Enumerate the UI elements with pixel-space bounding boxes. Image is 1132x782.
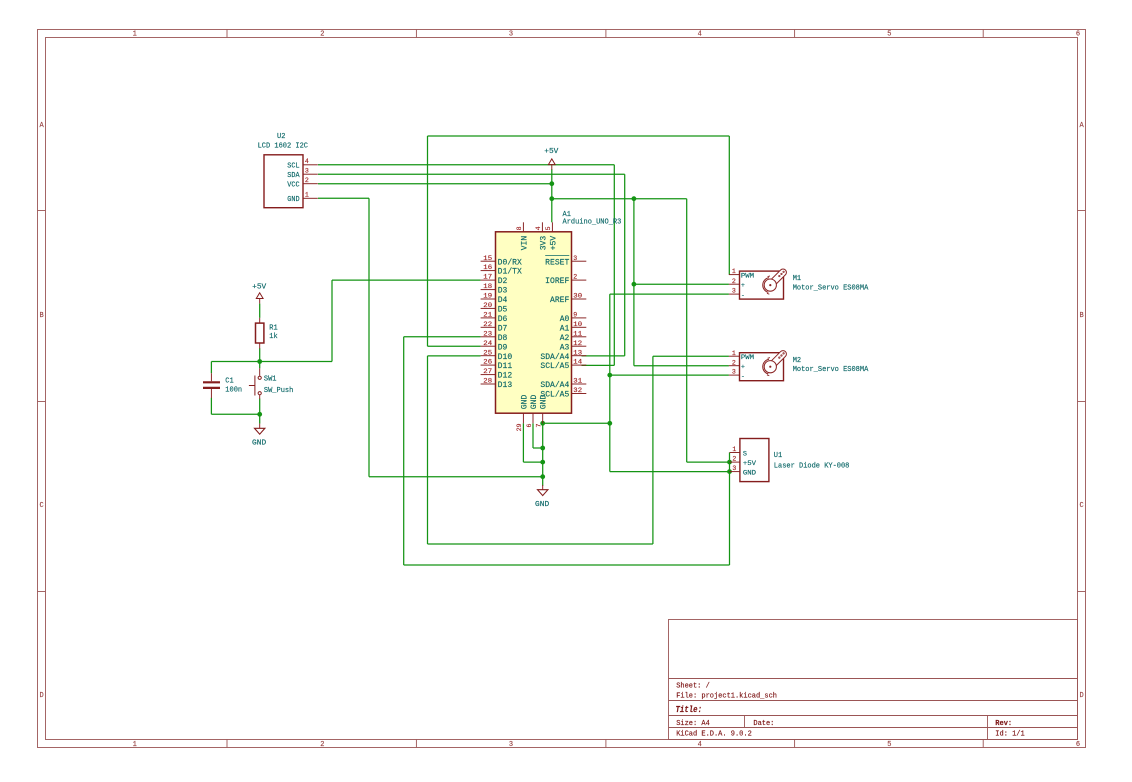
U1 pin 1 S bbox=[730, 446, 747, 459]
A1 pin 13 SDA/A4 bbox=[540, 349, 586, 362]
wire VCC from U2 to +5V rail bbox=[318, 183, 552, 185]
A1 pin 5 +5V (top) bbox=[545, 222, 558, 250]
svg-text:18: 18 bbox=[483, 283, 492, 290]
A1 pin 15 D0/RX bbox=[481, 255, 522, 268]
svg-text:6: 6 bbox=[526, 423, 533, 427]
A1 pin 31 SDA/A4 bbox=[540, 378, 586, 391]
M2 pin 2 + bbox=[729, 359, 745, 371]
U2 pin 3 SDA bbox=[287, 168, 317, 181]
svg-text:D13: D13 bbox=[498, 381, 513, 390]
frame row ticks bbox=[38, 211, 1086, 592]
frame column labels 1-6 top and bottom bbox=[133, 31, 1081, 750]
power symbol +5V above R1 bbox=[252, 283, 267, 318]
svg-text:File: project1.kicad_sch: File: project1.kicad_sch bbox=[676, 693, 777, 701]
M1 servo horn icon bbox=[763, 268, 788, 295]
A1 pin 6 GND (bottom) bbox=[526, 395, 539, 428]
svg-text:GND: GND bbox=[287, 196, 299, 204]
ground symbol left GND below SW1 bbox=[252, 424, 266, 448]
A1 pin 16 D1/TX bbox=[481, 264, 522, 277]
wire GND pin 7 to the right bbox=[543, 422, 610, 424]
svg-text:25: 25 bbox=[483, 349, 492, 356]
ground symbol GND below Arduino bbox=[535, 485, 549, 509]
A1 pin 30 AREF bbox=[550, 293, 586, 306]
M2 pin 1 PWM bbox=[729, 350, 754, 362]
svg-text:-: - bbox=[741, 373, 745, 381]
svg-text:100n: 100n bbox=[225, 387, 242, 395]
svg-text:26: 26 bbox=[483, 359, 492, 366]
svg-text:+5V: +5V bbox=[544, 148, 559, 156]
svg-text:Rev:: Rev: bbox=[995, 720, 1012, 728]
wire R1 bottom to SW1 top bbox=[259, 348, 261, 368]
A1 pin 2 IOREF bbox=[545, 274, 586, 287]
A1 pin 14 SCL/A5 bbox=[540, 359, 586, 372]
wire SCL vertical bbox=[613, 165, 615, 366]
svg-text:SCL: SCL bbox=[287, 163, 299, 171]
svg-text:D5: D5 bbox=[498, 306, 508, 315]
svg-text:1: 1 bbox=[732, 446, 736, 453]
U2 pin 2 VCC bbox=[287, 177, 317, 190]
svg-text:3: 3 bbox=[305, 168, 309, 175]
svg-text:B: B bbox=[1079, 312, 1083, 320]
U2 pin 1 GND bbox=[287, 192, 317, 205]
node GND rail bbox=[607, 421, 612, 426]
wire D10 net vertical down bbox=[427, 356, 429, 544]
svg-text:5: 5 bbox=[887, 741, 891, 749]
svg-text:5: 5 bbox=[887, 31, 891, 39]
svg-text:C: C bbox=[39, 502, 43, 510]
svg-text:32: 32 bbox=[573, 387, 582, 394]
svg-text:C1: C1 bbox=[225, 377, 233, 385]
node +5V rail tap bbox=[549, 196, 554, 201]
wire SW1 bottom to GND symbol bbox=[259, 399, 261, 424]
svg-text:Size: A4: Size: A4 bbox=[676, 720, 710, 728]
svg-text:2: 2 bbox=[305, 177, 309, 184]
node GND M2 pin3 bbox=[607, 373, 612, 378]
wire SDA vertical bbox=[624, 174, 626, 356]
svg-text:A1: A1 bbox=[560, 324, 570, 333]
svg-text:3: 3 bbox=[732, 288, 736, 295]
wire D10 net bottom horizontal bbox=[428, 543, 653, 545]
wire GND pin 6 down bbox=[532, 423, 534, 448]
A1 pin 20 D5 bbox=[481, 302, 508, 315]
svg-text:16: 16 bbox=[483, 264, 492, 271]
wire SCL into SCL/A5 pin 14 bbox=[582, 364, 615, 366]
svg-text:D11: D11 bbox=[498, 362, 513, 371]
svg-text:+: + bbox=[741, 282, 745, 290]
node U1 pin3 junction bbox=[727, 469, 732, 474]
svg-text:8: 8 bbox=[516, 226, 523, 230]
svg-text:4: 4 bbox=[305, 158, 309, 165]
svg-text:B: B bbox=[39, 312, 43, 320]
wire D2 net vertical bbox=[331, 280, 333, 361]
U2 pin 4 SCL bbox=[287, 158, 317, 171]
wire GND vertical M1 pin 3 down to U1 bbox=[609, 294, 611, 472]
svg-text:2: 2 bbox=[320, 741, 324, 749]
motor M2 Motor_Servo ES08MA body bbox=[740, 353, 784, 381]
svg-text:SW_Push: SW_Push bbox=[264, 387, 293, 395]
svg-text:D: D bbox=[1079, 692, 1083, 700]
svg-text:AREF: AREF bbox=[550, 296, 570, 305]
wire U2 GND join bbox=[369, 476, 543, 478]
node GND pin7 bbox=[540, 421, 545, 426]
svg-text:4: 4 bbox=[535, 226, 542, 230]
svg-text:9: 9 bbox=[573, 312, 577, 319]
A1 pin 12 A3 bbox=[560, 340, 587, 353]
A1 pin 8 VIN (top) bbox=[516, 222, 529, 250]
wire D9 net top horizontal bbox=[428, 135, 730, 137]
svg-text:-: - bbox=[741, 292, 745, 300]
svg-text:20: 20 bbox=[483, 302, 492, 309]
svg-text:+: + bbox=[741, 364, 745, 372]
svg-text:17: 17 bbox=[483, 274, 492, 281]
svg-text:RESET: RESET bbox=[545, 258, 569, 267]
svg-text:1k: 1k bbox=[269, 333, 277, 341]
A1 pin 3 RESET bbox=[545, 255, 586, 268]
svg-text:+5V: +5V bbox=[743, 460, 757, 468]
motor M1 Motor_Servo ES08MA body bbox=[740, 271, 784, 299]
svg-text:Sheet: /: Sheet: / bbox=[676, 682, 710, 690]
wire D8 net vertical down bbox=[403, 337, 405, 565]
svg-text:LCD 1602 I2C: LCD 1602 I2C bbox=[258, 143, 308, 151]
svg-text:21: 21 bbox=[483, 312, 492, 319]
wire SDA into SDA/A4 pin 13 bbox=[582, 355, 625, 357]
svg-text:3V3: 3V3 bbox=[539, 236, 548, 251]
svg-text:+5V: +5V bbox=[252, 283, 267, 291]
wire C1 bottom down bbox=[210, 398, 212, 415]
wire D10 to the left bbox=[428, 355, 481, 357]
svg-text:Date:: Date: bbox=[753, 720, 774, 728]
svg-text:30: 30 bbox=[573, 293, 582, 300]
wire GND pin 29 down bbox=[522, 423, 524, 462]
svg-text:GND: GND bbox=[252, 439, 266, 447]
svg-text:GND: GND bbox=[535, 501, 549, 509]
svg-text:M1: M1 bbox=[793, 275, 801, 283]
svg-text:GND: GND bbox=[520, 395, 529, 410]
svg-text:D1/TX: D1/TX bbox=[498, 268, 522, 277]
svg-text:6: 6 bbox=[1076, 741, 1080, 749]
svg-text:SDA: SDA bbox=[287, 172, 300, 180]
svg-text:SCL/A5: SCL/A5 bbox=[540, 362, 569, 371]
svg-text:D6: D6 bbox=[498, 315, 508, 324]
wire GND into M2 pin 3 bbox=[610, 374, 729, 376]
A1 pin 22 D7 bbox=[481, 321, 508, 334]
wire +5V vertical to U1 bbox=[686, 199, 688, 462]
title block outline bbox=[669, 620, 1078, 740]
node GND pin29 join bbox=[540, 460, 545, 465]
svg-text:GND: GND bbox=[530, 395, 539, 410]
svg-text:11: 11 bbox=[573, 330, 582, 337]
svg-text:Motor_Servo ES08MA: Motor_Servo ES08MA bbox=[793, 285, 869, 293]
A1 pin 32 SCL/A5 bbox=[540, 387, 586, 400]
svg-text:D4: D4 bbox=[498, 296, 508, 305]
svg-text:A3: A3 bbox=[560, 343, 570, 352]
wire down into M1 pin 1 PWM bbox=[728, 136, 730, 275]
A1 pin 24 D9 bbox=[481, 340, 508, 353]
svg-text:S: S bbox=[743, 451, 747, 459]
svg-text:1: 1 bbox=[305, 192, 309, 199]
svg-text:Title:: Title: bbox=[676, 704, 703, 715]
svg-text:C: C bbox=[1079, 502, 1083, 510]
svg-text:1: 1 bbox=[732, 268, 736, 275]
svg-text:13: 13 bbox=[573, 349, 582, 356]
svg-text:7: 7 bbox=[536, 423, 543, 427]
A1 pin 21 D6 bbox=[481, 312, 508, 325]
wire up to M2 pin 1 bbox=[652, 356, 654, 544]
wire GND into U1 pin 3 bbox=[610, 471, 730, 473]
svg-text:23: 23 bbox=[483, 330, 492, 337]
svg-text:D7: D7 bbox=[498, 324, 508, 333]
node GND U2 join bbox=[540, 474, 545, 479]
wire GND into M1 pin 3 bbox=[610, 293, 729, 295]
svg-text:U1: U1 bbox=[774, 452, 782, 460]
wire D8 to the left bbox=[404, 336, 481, 338]
svg-text:10: 10 bbox=[573, 321, 582, 328]
U1 Laser Diode KY-008 body bbox=[740, 439, 769, 482]
wire GND pin 29 join bbox=[523, 461, 542, 463]
frame column ticks bbox=[227, 30, 983, 748]
svg-text:+5V: +5V bbox=[549, 236, 558, 251]
svg-text:2: 2 bbox=[732, 456, 736, 463]
svg-text:SDA/A4: SDA/A4 bbox=[540, 353, 569, 362]
capacitor C1 bbox=[203, 373, 220, 398]
wire +5V branch vertical to M1 bbox=[633, 199, 635, 285]
svg-text:31: 31 bbox=[573, 378, 582, 385]
U1 pin 2 +5V bbox=[730, 456, 758, 469]
svg-text:VIN: VIN bbox=[520, 236, 529, 251]
A1 pin 27 D12 bbox=[481, 368, 513, 381]
svg-text:IOREF: IOREF bbox=[545, 277, 569, 286]
svg-text:3: 3 bbox=[509, 741, 513, 749]
svg-text:A2: A2 bbox=[560, 334, 570, 343]
svg-text:D3: D3 bbox=[498, 287, 508, 296]
svg-text:D10: D10 bbox=[498, 353, 513, 362]
svg-text:19: 19 bbox=[483, 293, 492, 300]
svg-text:D12: D12 bbox=[498, 372, 513, 381]
svg-text:PWM: PWM bbox=[741, 273, 754, 281]
M1 pin 2 + bbox=[729, 278, 745, 290]
svg-text:VCC: VCC bbox=[287, 182, 299, 190]
svg-text:2: 2 bbox=[732, 278, 736, 285]
svg-text:1: 1 bbox=[732, 350, 736, 357]
svg-text:3: 3 bbox=[732, 369, 736, 376]
M1 pin 1 PWM bbox=[729, 268, 754, 280]
svg-text:D: D bbox=[39, 692, 43, 700]
M1 pin 3 - bbox=[729, 288, 745, 300]
node +5V VCC tap bbox=[549, 181, 554, 186]
U2 LCD 1602 I2C component box bbox=[264, 155, 303, 208]
node U1 pin2 junction bbox=[727, 460, 732, 465]
wire D9 to the left bbox=[428, 345, 481, 347]
A1 pin 26 D11 bbox=[481, 359, 513, 372]
switch SW1 SW_Push bbox=[249, 368, 261, 399]
svg-text:3: 3 bbox=[732, 465, 736, 472]
wire U2 GND vertical bbox=[368, 198, 370, 476]
wire +5V into U1 pin 2 bbox=[687, 461, 730, 463]
svg-text:2: 2 bbox=[320, 31, 324, 39]
svg-text:14: 14 bbox=[573, 359, 582, 366]
svg-text:GND: GND bbox=[743, 470, 756, 478]
wire GND pin 6 join bbox=[533, 447, 543, 449]
svg-text:4: 4 bbox=[698, 741, 702, 749]
svg-text:27: 27 bbox=[483, 368, 492, 375]
svg-text:Id: 1/1: Id: 1/1 bbox=[995, 731, 1024, 739]
svg-text:D8: D8 bbox=[498, 334, 508, 343]
U1 pin 3 GND bbox=[730, 465, 757, 478]
svg-text:Arduino_UNO_R3: Arduino_UNO_R3 bbox=[563, 218, 622, 226]
svg-text:SDA/A4: SDA/A4 bbox=[540, 381, 569, 390]
svg-text:1: 1 bbox=[133, 741, 137, 749]
A1 pin 18 D3 bbox=[481, 283, 508, 296]
wire D9 net vertical up bbox=[427, 136, 429, 346]
svg-text:1: 1 bbox=[133, 31, 137, 39]
wire down to C1 bbox=[210, 362, 212, 374]
svg-text:GND: GND bbox=[540, 395, 549, 410]
power symbol +5V above Arduino bbox=[544, 148, 559, 170]
node GND left bbox=[257, 412, 262, 417]
svg-text:15: 15 bbox=[483, 255, 492, 262]
node R1/SW1/C1/D2 bbox=[257, 359, 262, 364]
svg-text:D2: D2 bbox=[498, 277, 508, 286]
svg-text:D0/RX: D0/RX bbox=[498, 258, 522, 267]
resistor R1 bbox=[256, 318, 264, 349]
wire U2 GND to the right bbox=[318, 197, 369, 199]
svg-text:A0: A0 bbox=[560, 315, 570, 324]
svg-text:3: 3 bbox=[509, 31, 513, 39]
svg-text:5: 5 bbox=[545, 226, 552, 230]
wire SDA horizontal from U2 bbox=[318, 173, 625, 175]
svg-text:Laser Diode KY-008: Laser Diode KY-008 bbox=[774, 463, 850, 471]
svg-text:29: 29 bbox=[516, 423, 523, 431]
A1 pin 11 A2 bbox=[560, 330, 587, 343]
wire SCL horizontal from U2 bbox=[318, 164, 614, 166]
A1 pin 28 D13 bbox=[481, 378, 513, 391]
svg-text:R1: R1 bbox=[269, 324, 277, 332]
wire up to U1 pin 1 S bbox=[729, 453, 731, 566]
M2 servo horn icon bbox=[763, 349, 788, 376]
svg-text:Motor_Servo ES08MA: Motor_Servo ES08MA bbox=[793, 366, 869, 374]
svg-text:12: 12 bbox=[573, 340, 582, 347]
node M1 +5V branch bbox=[632, 282, 637, 287]
wire into M2 pin 1 PWM bbox=[653, 355, 729, 357]
wire +5V symbol down to Arduino +5V pin bbox=[551, 169, 553, 222]
svg-text:KiCad E.D.A. 9.0.2: KiCad E.D.A. 9.0.2 bbox=[676, 731, 752, 739]
svg-text:PWM: PWM bbox=[741, 354, 754, 362]
svg-text:2: 2 bbox=[732, 359, 736, 366]
A1 pin 17 D2 bbox=[481, 274, 508, 287]
svg-text:24: 24 bbox=[483, 340, 492, 347]
wire D2 net to R1 and C1 bbox=[211, 361, 332, 363]
A1 pin 7 GND (bottom) bbox=[536, 395, 549, 428]
svg-text:3: 3 bbox=[573, 255, 577, 262]
wire +5V into M2 pin 2 bbox=[634, 365, 729, 367]
wire +5V into M1 pin 2 bbox=[634, 283, 729, 285]
A1 pin 4 3V3 (top) bbox=[535, 222, 548, 250]
svg-text:2: 2 bbox=[573, 274, 577, 281]
node +5V rail branch bbox=[632, 196, 637, 201]
A1 pin 23 D8 bbox=[481, 330, 508, 343]
wire +5V rail to the right bbox=[552, 198, 687, 200]
svg-text:4: 4 bbox=[698, 31, 702, 39]
svg-text:28: 28 bbox=[483, 378, 492, 385]
svg-text:SW1: SW1 bbox=[264, 376, 277, 384]
svg-text:M2: M2 bbox=[793, 357, 801, 365]
node GND pin6 join bbox=[540, 446, 545, 451]
A1 pin 9 A0 bbox=[560, 312, 587, 325]
A1 pin 29 GND (bottom) bbox=[516, 395, 529, 432]
A1 Arduino_UNO_R3 module body bbox=[496, 232, 572, 413]
A1 pin 19 D4 bbox=[481, 293, 508, 306]
svg-text:22: 22 bbox=[483, 321, 492, 328]
svg-text:6: 6 bbox=[1076, 31, 1080, 39]
wire D2 to the left bbox=[332, 279, 481, 281]
A1 pin 25 D10 bbox=[481, 349, 513, 362]
svg-text:D9: D9 bbox=[498, 343, 508, 352]
wire C1 bottom to GND bbox=[211, 413, 259, 415]
wire GND pin 7 down to GND symbol bbox=[542, 423, 544, 486]
wire +5V branch vertical to M2 bbox=[633, 284, 635, 366]
A1 pin 10 A1 bbox=[560, 321, 587, 334]
svg-text:U2: U2 bbox=[277, 133, 285, 141]
M2 pin 3 - bbox=[729, 369, 745, 381]
wire D8 net bottom horizontal bbox=[404, 564, 730, 566]
frame row labels A-D left and right bbox=[39, 122, 1084, 700]
